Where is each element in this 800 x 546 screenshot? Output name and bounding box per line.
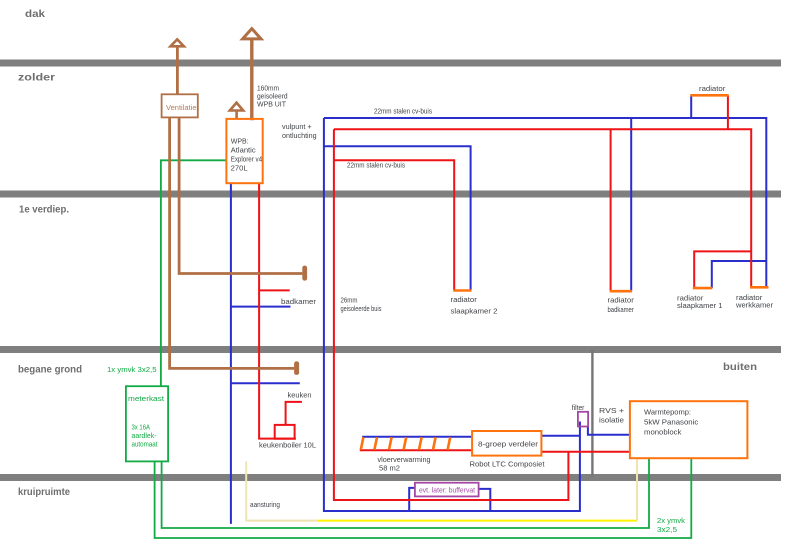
svg-text:slaapkamer 2: slaapkamer 2 bbox=[451, 306, 498, 315]
wire yellow aansturing run bbox=[317, 520, 637, 522]
svg-text:RVS +: RVS + bbox=[599, 406, 624, 415]
pipe red run radiator slaapkamer 2 bbox=[334, 160, 454, 290]
radiator slaapkamer 1 tick bbox=[693, 287, 713, 290]
svg-text:keukenboiler 10L: keukenboiler 10L bbox=[259, 440, 316, 449]
keukenboiler box bbox=[275, 425, 295, 439]
svg-text:WPB UIT: WPB UIT bbox=[257, 99, 287, 108]
svg-text:keuken: keuken bbox=[288, 390, 312, 399]
floor slab 1e verdiep/begane grond bbox=[0, 346, 781, 353]
svg-text:Robot LTC Composiet: Robot LTC Composiet bbox=[470, 459, 545, 468]
svg-text:22mm stalen cv-buis: 22mm stalen cv-buis bbox=[347, 160, 405, 169]
svg-text:filter: filter bbox=[572, 403, 585, 412]
pipe blue buffervat right stub bbox=[479, 489, 491, 511]
svg-text:radiator: radiator bbox=[608, 295, 635, 304]
floor slab dak/zolder bbox=[0, 60, 781, 67]
radiator slaapkamer 2 tick bbox=[453, 289, 471, 292]
pipe red badkamer stub bbox=[259, 289, 290, 291]
pipe blue badkamer stub bbox=[231, 306, 291, 308]
wire beige aansturing riser to warmtepomp bbox=[636, 458, 638, 520]
svg-text:270L: 270L bbox=[231, 164, 248, 173]
svg-text:aansturing: aansturing bbox=[250, 500, 280, 509]
svg-text:evt. later: buffervat: evt. later: buffervat bbox=[419, 486, 475, 495]
floor slab zolder/1e verdiep bbox=[0, 191, 781, 198]
pipe blue main riser down + bottom run + filter leg bbox=[324, 118, 580, 511]
pipe blue buffervat left stub bbox=[409, 488, 415, 511]
radiator badkamer tick bbox=[610, 290, 632, 293]
svg-text:begane grond: begane grond bbox=[18, 365, 82, 376]
svg-text:slaapkamer 1: slaapkamer 1 bbox=[677, 301, 723, 310]
svg-text:WPB:: WPB: bbox=[231, 137, 249, 146]
radiator werkkamer tick bbox=[750, 286, 769, 289]
pipe blue keuken stub bbox=[231, 382, 300, 384]
svg-text:58 m2: 58 m2 bbox=[379, 463, 400, 472]
svg-text:badkamer: badkamer bbox=[281, 297, 317, 306]
pipe red hot tap riser from WPB to keukenboiler bbox=[259, 183, 296, 439]
pipe blue radiator badkamer bbox=[630, 118, 632, 291]
svg-text:Warmtepomp:: Warmtepomp: bbox=[644, 408, 691, 417]
svg-text:Explorer v4: Explorer v4 bbox=[231, 155, 262, 164]
pipe blue verdeler to filter junction bbox=[541, 435, 580, 437]
svg-text:5kW Panasonic: 5kW Panasonic bbox=[644, 418, 699, 427]
vloerverwarming coil hatches bbox=[361, 437, 450, 450]
svg-text:26mm: 26mm bbox=[341, 295, 358, 304]
svg-text:automaat: automaat bbox=[132, 440, 158, 449]
pipe red radiator zolder bbox=[727, 95, 729, 129]
buffervat box bbox=[415, 483, 479, 497]
svg-text:geisoleerde buis: geisoleerde buis bbox=[341, 304, 382, 313]
duct brown WPB small arrow bbox=[230, 103, 243, 111]
pipe red vloerverwarming bottom bbox=[360, 449, 472, 451]
pipe red main riser down + bottom run + up leg bbox=[334, 129, 569, 500]
wire green inner meterkast-warmtepomp bbox=[162, 458, 649, 528]
svg-text:badkamer: badkamer bbox=[608, 305, 635, 314]
svg-text:buiten: buiten bbox=[723, 362, 757, 373]
wire beige aansturing drop bbox=[246, 462, 317, 521]
duct end cap 1e verdiep bbox=[302, 266, 307, 281]
svg-text:zolder: zolder bbox=[18, 73, 55, 84]
pipe blue filter out to warmtepomp bbox=[588, 427, 630, 435]
svg-text:Atlantic: Atlantic bbox=[231, 146, 256, 155]
duct brown arrow ventilatie roof bbox=[171, 39, 184, 46]
pipe blue vloerverwarming top bbox=[362, 436, 472, 438]
duct brown WPB UIT big arrow bbox=[243, 29, 261, 39]
svg-text:22mm stalen cv-buis: 22mm stalen cv-buis bbox=[374, 106, 432, 115]
pipe red radiator badkamer bbox=[610, 129, 612, 291]
svg-text:1x ymvk 3x2,5: 1x ymvk 3x2,5 bbox=[107, 365, 157, 374]
svg-text:radiator: radiator bbox=[451, 295, 478, 304]
pipe blue branch radiator slaapkamer 1 bbox=[712, 261, 767, 288]
pipe red branch radiator slaapkamer 1 bbox=[694, 251, 751, 288]
svg-text:isolatie: isolatie bbox=[599, 415, 624, 424]
filter box bbox=[578, 412, 588, 427]
pipe blue run radiator slaapkamer 2 bbox=[324, 146, 471, 290]
ventilatie box bbox=[162, 94, 198, 117]
svg-text:vulpunt +: vulpunt + bbox=[282, 122, 312, 131]
duct end cap begane grond bbox=[294, 361, 299, 375]
svg-text:1e verdiep.: 1e verdiep. bbox=[19, 205, 69, 216]
svg-text:Ventilatie: Ventilatie bbox=[166, 103, 197, 112]
pipe red verdeler to warmtepomp bbox=[541, 451, 630, 453]
wire green meterkast-WPB feed bbox=[161, 160, 227, 386]
duct brown to 1e verdiep badkamer bbox=[179, 117, 302, 273]
pipe red keuken stub bbox=[286, 402, 302, 425]
svg-text:werkkamer: werkkamer bbox=[735, 300, 774, 309]
svg-text:radiator: radiator bbox=[699, 84, 726, 93]
pipe blue cold water riser from WPB bbox=[230, 183, 232, 524]
WPB boiler box bbox=[226, 119, 262, 183]
duct brown to begane grond keuken bbox=[170, 117, 295, 368]
svg-text:2x ymvk: 2x ymvk bbox=[657, 516, 685, 525]
meterkast box bbox=[126, 386, 168, 461]
radiator zolder tick bbox=[690, 94, 728, 97]
svg-text:kruipruimte: kruipruimte bbox=[18, 487, 70, 498]
warmtepomp box bbox=[630, 401, 748, 458]
wall binnen/buiten bbox=[591, 350, 593, 477]
pipe blue cv main zolder + right drop to radiator werkkamer bbox=[324, 118, 766, 288]
svg-text:monoblock: monoblock bbox=[644, 428, 682, 437]
svg-text:8-groep verdeler: 8-groep verdeler bbox=[478, 439, 539, 448]
svg-text:3x2,5: 3x2,5 bbox=[657, 525, 677, 534]
svg-text:ontluchting: ontluchting bbox=[282, 131, 317, 140]
wire green outer meterkast-warmtepomp bbox=[155, 458, 692, 538]
pipe blue radiator zolder bbox=[690, 95, 692, 118]
svg-text:dak: dak bbox=[25, 9, 46, 20]
floor slab begane grond/kruipruimte bbox=[0, 474, 781, 481]
pipe red cv main zolder + right drop to radiator werkkamer bbox=[334, 129, 751, 287]
svg-text:meterkast: meterkast bbox=[128, 394, 164, 403]
8-groep verdeler box bbox=[472, 431, 541, 456]
